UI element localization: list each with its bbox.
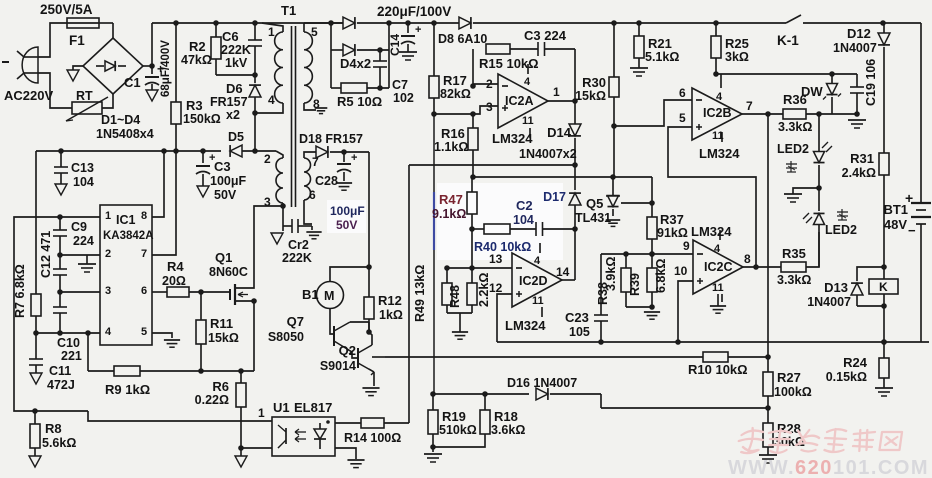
svg-text:−: − bbox=[908, 223, 916, 238]
svg-text:4: 4 bbox=[105, 326, 112, 338]
svg-text:3: 3 bbox=[264, 195, 271, 209]
svg-text:11: 11 bbox=[522, 115, 534, 127]
svg-text:R25: R25 bbox=[725, 36, 749, 51]
svg-text:LED2: LED2 bbox=[825, 223, 857, 237]
svg-text:104: 104 bbox=[513, 213, 534, 227]
svg-text:R4: R4 bbox=[167, 259, 184, 274]
svg-text:R6: R6 bbox=[212, 379, 229, 394]
svg-text:R31: R31 bbox=[850, 151, 874, 166]
svg-text:15kΩ: 15kΩ bbox=[575, 89, 606, 103]
svg-text:1N4007: 1N4007 bbox=[807, 295, 851, 309]
svg-text:50V: 50V bbox=[336, 218, 357, 232]
svg-text:224: 224 bbox=[73, 234, 94, 248]
svg-text:R47: R47 bbox=[439, 192, 463, 207]
svg-text:R9 1kΩ: R9 1kΩ bbox=[105, 382, 150, 397]
svg-text:IC2D: IC2D bbox=[519, 274, 547, 288]
svg-text:R8: R8 bbox=[45, 421, 62, 436]
svg-text:15kΩ: 15kΩ bbox=[208, 331, 239, 345]
svg-text:K: K bbox=[879, 280, 888, 294]
svg-text:1kΩ: 1kΩ bbox=[379, 308, 403, 322]
svg-text:EL817: EL817 bbox=[294, 400, 332, 415]
svg-text:6.8kΩ: 6.8kΩ bbox=[654, 259, 668, 293]
svg-text:Cr2: Cr2 bbox=[288, 238, 309, 252]
svg-text:R21: R21 bbox=[648, 36, 672, 51]
svg-text:R40 10kΩ: R40 10kΩ bbox=[474, 240, 531, 254]
svg-text:R5 10Ω: R5 10Ω bbox=[337, 94, 382, 109]
svg-text:D17: D17 bbox=[543, 190, 566, 204]
svg-text:11: 11 bbox=[712, 130, 724, 142]
svg-text:Q7: Q7 bbox=[287, 314, 304, 329]
svg-text:IC2B: IC2B bbox=[703, 106, 731, 120]
svg-text:2.4kΩ: 2.4kΩ bbox=[842, 166, 876, 180]
svg-text:102: 102 bbox=[393, 91, 414, 105]
svg-text:4: 4 bbox=[716, 91, 723, 103]
svg-text:C2: C2 bbox=[516, 198, 533, 213]
svg-text:12: 12 bbox=[489, 281, 503, 295]
svg-text:1: 1 bbox=[553, 85, 560, 99]
svg-text:C9: C9 bbox=[71, 220, 87, 234]
svg-text:8: 8 bbox=[313, 97, 320, 111]
svg-text:11: 11 bbox=[532, 295, 544, 307]
svg-text:2: 2 bbox=[264, 152, 271, 166]
svg-text:6: 6 bbox=[309, 188, 316, 202]
svg-text:Q5: Q5 bbox=[586, 196, 603, 211]
svg-text:68μF/400V: 68μF/400V bbox=[160, 40, 172, 97]
svg-text:R15 10kΩ: R15 10kΩ bbox=[479, 56, 539, 71]
svg-text:11: 11 bbox=[712, 282, 724, 294]
svg-text:LM324: LM324 bbox=[699, 146, 740, 161]
svg-text:R24: R24 bbox=[843, 355, 868, 370]
svg-text:91kΩ: 91kΩ bbox=[657, 226, 688, 240]
svg-text:K-1: K-1 bbox=[777, 33, 799, 48]
svg-text:C11: C11 bbox=[49, 364, 71, 378]
svg-text:3.6kΩ: 3.6kΩ bbox=[491, 423, 525, 437]
svg-text:1kV: 1kV bbox=[225, 56, 248, 70]
svg-text:R36: R36 bbox=[783, 92, 807, 107]
svg-text:9.1kΩ: 9.1kΩ bbox=[432, 207, 466, 221]
svg-text:5: 5 bbox=[311, 25, 318, 39]
svg-text:14: 14 bbox=[556, 265, 570, 279]
svg-text:D4x2: D4x2 bbox=[340, 56, 371, 71]
svg-text:C13: C13 bbox=[71, 161, 94, 175]
svg-text:+: + bbox=[351, 152, 357, 164]
svg-text:100μF: 100μF bbox=[330, 204, 365, 218]
svg-text:472J: 472J bbox=[47, 378, 75, 392]
svg-text:R37: R37 bbox=[660, 212, 684, 227]
svg-text:0.22Ω: 0.22Ω bbox=[195, 393, 229, 407]
svg-text:47kΩ: 47kΩ bbox=[181, 53, 212, 67]
svg-text:7: 7 bbox=[141, 248, 147, 260]
svg-text:3kΩ: 3kΩ bbox=[725, 50, 749, 64]
svg-text:2: 2 bbox=[105, 248, 111, 260]
svg-text:R49 13kΩ: R49 13kΩ bbox=[413, 265, 427, 322]
svg-text:C14: C14 bbox=[388, 34, 402, 56]
svg-text:C28: C28 bbox=[315, 174, 338, 188]
svg-text:R10 10kΩ: R10 10kΩ bbox=[688, 362, 748, 377]
svg-text:510kΩ: 510kΩ bbox=[439, 423, 477, 437]
svg-text:R3: R3 bbox=[186, 98, 203, 113]
svg-text:R18: R18 bbox=[494, 409, 518, 424]
svg-text:IC2A: IC2A bbox=[505, 94, 533, 108]
svg-text:105: 105 bbox=[569, 325, 590, 339]
svg-text:C6: C6 bbox=[222, 29, 239, 44]
svg-text:D14: D14 bbox=[547, 125, 572, 140]
svg-text:Q1: Q1 bbox=[215, 250, 232, 265]
svg-text:150kΩ: 150kΩ bbox=[183, 112, 221, 126]
svg-text:3.3kΩ: 3.3kΩ bbox=[778, 120, 812, 134]
svg-text:6: 6 bbox=[141, 285, 147, 297]
svg-text:101.COM: 101.COM bbox=[833, 457, 929, 478]
svg-text:IC2C: IC2C bbox=[704, 260, 732, 274]
svg-text:WWW.: WWW. bbox=[728, 457, 795, 478]
svg-text:D12: D12 bbox=[847, 26, 871, 41]
svg-text:R48: R48 bbox=[448, 285, 462, 308]
svg-text:R30: R30 bbox=[582, 75, 606, 90]
svg-text:20Ω: 20Ω bbox=[162, 274, 186, 288]
svg-text:4: 4 bbox=[714, 243, 721, 255]
svg-text:4: 4 bbox=[268, 93, 275, 107]
svg-text:82kΩ: 82kΩ bbox=[440, 87, 471, 101]
svg-text:C1: C1 bbox=[124, 75, 141, 90]
svg-text:8N60C: 8N60C bbox=[209, 265, 248, 279]
svg-text:U1: U1 bbox=[273, 400, 290, 415]
svg-text:D13: D13 bbox=[824, 280, 848, 295]
svg-text:5: 5 bbox=[141, 326, 147, 338]
svg-text:R35: R35 bbox=[782, 246, 806, 261]
svg-text:13: 13 bbox=[489, 252, 503, 266]
svg-text:R14 100Ω: R14 100Ω bbox=[344, 431, 401, 445]
svg-text:C12 471: C12 471 bbox=[39, 231, 53, 278]
svg-text:1.1kΩ: 1.1kΩ bbox=[434, 140, 468, 154]
svg-text:10: 10 bbox=[674, 264, 688, 278]
svg-text:3: 3 bbox=[486, 100, 493, 114]
svg-text:R39: R39 bbox=[628, 273, 642, 296]
svg-text:1N4007: 1N4007 bbox=[833, 41, 877, 55]
svg-text:48V: 48V bbox=[884, 217, 907, 232]
svg-text:1: 1 bbox=[258, 406, 265, 420]
svg-text:9: 9 bbox=[683, 239, 690, 253]
svg-text:R12: R12 bbox=[378, 293, 402, 308]
svg-text:1: 1 bbox=[105, 210, 111, 222]
svg-text:LM324: LM324 bbox=[505, 318, 546, 333]
svg-text:F1: F1 bbox=[69, 33, 85, 48]
svg-text:100kΩ: 100kΩ bbox=[774, 385, 812, 399]
svg-text:2: 2 bbox=[486, 77, 493, 91]
svg-text:T1: T1 bbox=[281, 3, 296, 18]
svg-text:BT1: BT1 bbox=[883, 202, 908, 217]
svg-text:8: 8 bbox=[744, 252, 751, 266]
svg-text:IC1: IC1 bbox=[116, 213, 136, 227]
svg-text:222K: 222K bbox=[221, 43, 251, 57]
svg-text:+: + bbox=[415, 24, 421, 36]
svg-text:LED2: LED2 bbox=[777, 142, 809, 156]
svg-text:3: 3 bbox=[105, 285, 111, 297]
svg-text:7: 7 bbox=[746, 99, 753, 113]
svg-text:C7: C7 bbox=[392, 78, 408, 92]
svg-text:1N4007x2: 1N4007x2 bbox=[519, 147, 577, 161]
svg-text:S9014: S9014 bbox=[320, 359, 356, 373]
svg-text:D6: D6 bbox=[226, 81, 243, 96]
svg-text:R16: R16 bbox=[441, 126, 465, 141]
svg-text:5.1kΩ: 5.1kΩ bbox=[645, 50, 679, 64]
svg-text:LM324: LM324 bbox=[492, 131, 533, 146]
svg-text:50V: 50V bbox=[214, 188, 237, 202]
svg-text:R2: R2 bbox=[189, 39, 206, 54]
svg-text:221: 221 bbox=[61, 349, 82, 363]
svg-text:C19 106: C19 106 bbox=[864, 59, 878, 106]
svg-text:222K: 222K bbox=[282, 251, 312, 265]
svg-text:3.3kΩ: 3.3kΩ bbox=[777, 273, 811, 287]
svg-text:B1: B1 bbox=[302, 287, 319, 302]
svg-text:C3 224: C3 224 bbox=[524, 28, 567, 43]
svg-text:FR157: FR157 bbox=[210, 95, 248, 109]
svg-text:Q2: Q2 bbox=[339, 343, 356, 358]
svg-text:D16 1N4007: D16 1N4007 bbox=[507, 376, 577, 390]
svg-text:R27: R27 bbox=[777, 370, 801, 385]
svg-text:100μF: 100μF bbox=[210, 174, 247, 188]
svg-text:6: 6 bbox=[679, 86, 686, 100]
svg-text:AC220V: AC220V bbox=[4, 88, 53, 103]
svg-text:1N5408x4: 1N5408x4 bbox=[96, 127, 154, 141]
svg-text:3.9kΩ: 3.9kΩ bbox=[604, 257, 618, 291]
svg-text:R7 6.8kΩ: R7 6.8kΩ bbox=[13, 264, 27, 318]
svg-text:1: 1 bbox=[268, 25, 275, 39]
svg-text:620: 620 bbox=[795, 457, 833, 478]
svg-text:KA3842A: KA3842A bbox=[103, 230, 154, 242]
svg-text:D5: D5 bbox=[228, 130, 244, 144]
svg-text:104: 104 bbox=[73, 175, 94, 189]
svg-text:S8050: S8050 bbox=[268, 330, 304, 344]
svg-text:R17: R17 bbox=[443, 73, 467, 88]
svg-text:5.6kΩ: 5.6kΩ bbox=[42, 436, 76, 450]
svg-text:R19: R19 bbox=[442, 409, 466, 424]
svg-text:M: M bbox=[324, 289, 334, 303]
svg-text:220μF/100V: 220μF/100V bbox=[377, 4, 451, 19]
svg-text:C3: C3 bbox=[214, 159, 231, 174]
svg-text:RT: RT bbox=[76, 89, 93, 103]
svg-text:D8 6A10: D8 6A10 bbox=[438, 32, 487, 46]
svg-text:C10: C10 bbox=[57, 336, 80, 350]
svg-text:4: 4 bbox=[534, 255, 541, 267]
svg-text:8: 8 bbox=[141, 210, 147, 222]
svg-text:5: 5 bbox=[679, 111, 686, 125]
svg-text:R11: R11 bbox=[210, 316, 233, 331]
svg-text:x2: x2 bbox=[226, 108, 240, 122]
svg-text:C23: C23 bbox=[565, 310, 589, 325]
svg-text:D1~D4: D1~D4 bbox=[101, 113, 140, 127]
svg-text:250V/5A: 250V/5A bbox=[40, 2, 93, 17]
svg-text:D18 FR157: D18 FR157 bbox=[299, 132, 363, 146]
svg-text:4: 4 bbox=[524, 76, 531, 88]
svg-text:LM324: LM324 bbox=[691, 224, 732, 239]
svg-text:0.15kΩ: 0.15kΩ bbox=[826, 370, 867, 384]
svg-text:TL431: TL431 bbox=[575, 211, 611, 225]
